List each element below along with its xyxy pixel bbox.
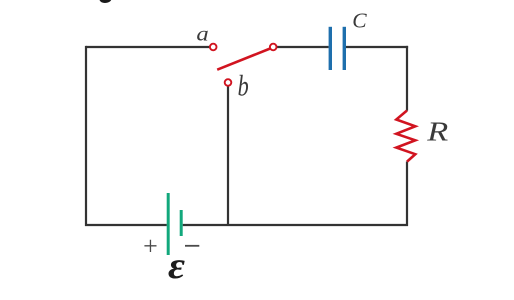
svg-text:b: b bbox=[238, 68, 249, 102]
battery EMF source: short negative plate (green) bbox=[180, 210, 183, 236]
capacitor C (two blue plates) bbox=[329, 27, 332, 70]
wire: top segment between switch and capacitor bbox=[277, 46, 329, 48]
switch S1 lever (thrown between contacts) bbox=[217, 49, 270, 70]
wire: right vertical above resistor bbox=[406, 46, 408, 111]
svg-text:ε: ε bbox=[168, 245, 185, 287]
wire: top-left segment from left corner to contact a bbox=[86, 46, 210, 48]
svg-text:R: R bbox=[426, 116, 448, 147]
polarity label minus (battery negative) bbox=[185, 245, 199, 247]
node a : switch contact (open circle) bbox=[210, 44, 217, 51]
resistor R (red zigzag) bbox=[396, 111, 415, 162]
node b : switch contact (open circle) bbox=[225, 79, 232, 86]
wire: left vertical side bbox=[85, 46, 87, 226]
wire: top segment between capacitor and right corner bbox=[346, 46, 408, 48]
cropped text remnant (descender) at top edge bbox=[100, 0, 112, 3]
wire: bottom-left segment to battery bbox=[85, 224, 167, 226]
wire: middle vertical from contact b down to bottom wire bbox=[227, 87, 229, 227]
switch S1 pivot contact (open circle) bbox=[270, 44, 277, 51]
svg-text:+: + bbox=[143, 232, 158, 261]
svg-text:C: C bbox=[352, 9, 367, 33]
wire: bottom-right segment from battery to right corner bbox=[183, 224, 408, 226]
wire: right vertical below resistor bbox=[406, 162, 408, 227]
battery EMF source: long positive plate (green) bbox=[167, 193, 170, 255]
svg-text:a: a bbox=[196, 22, 208, 46]
